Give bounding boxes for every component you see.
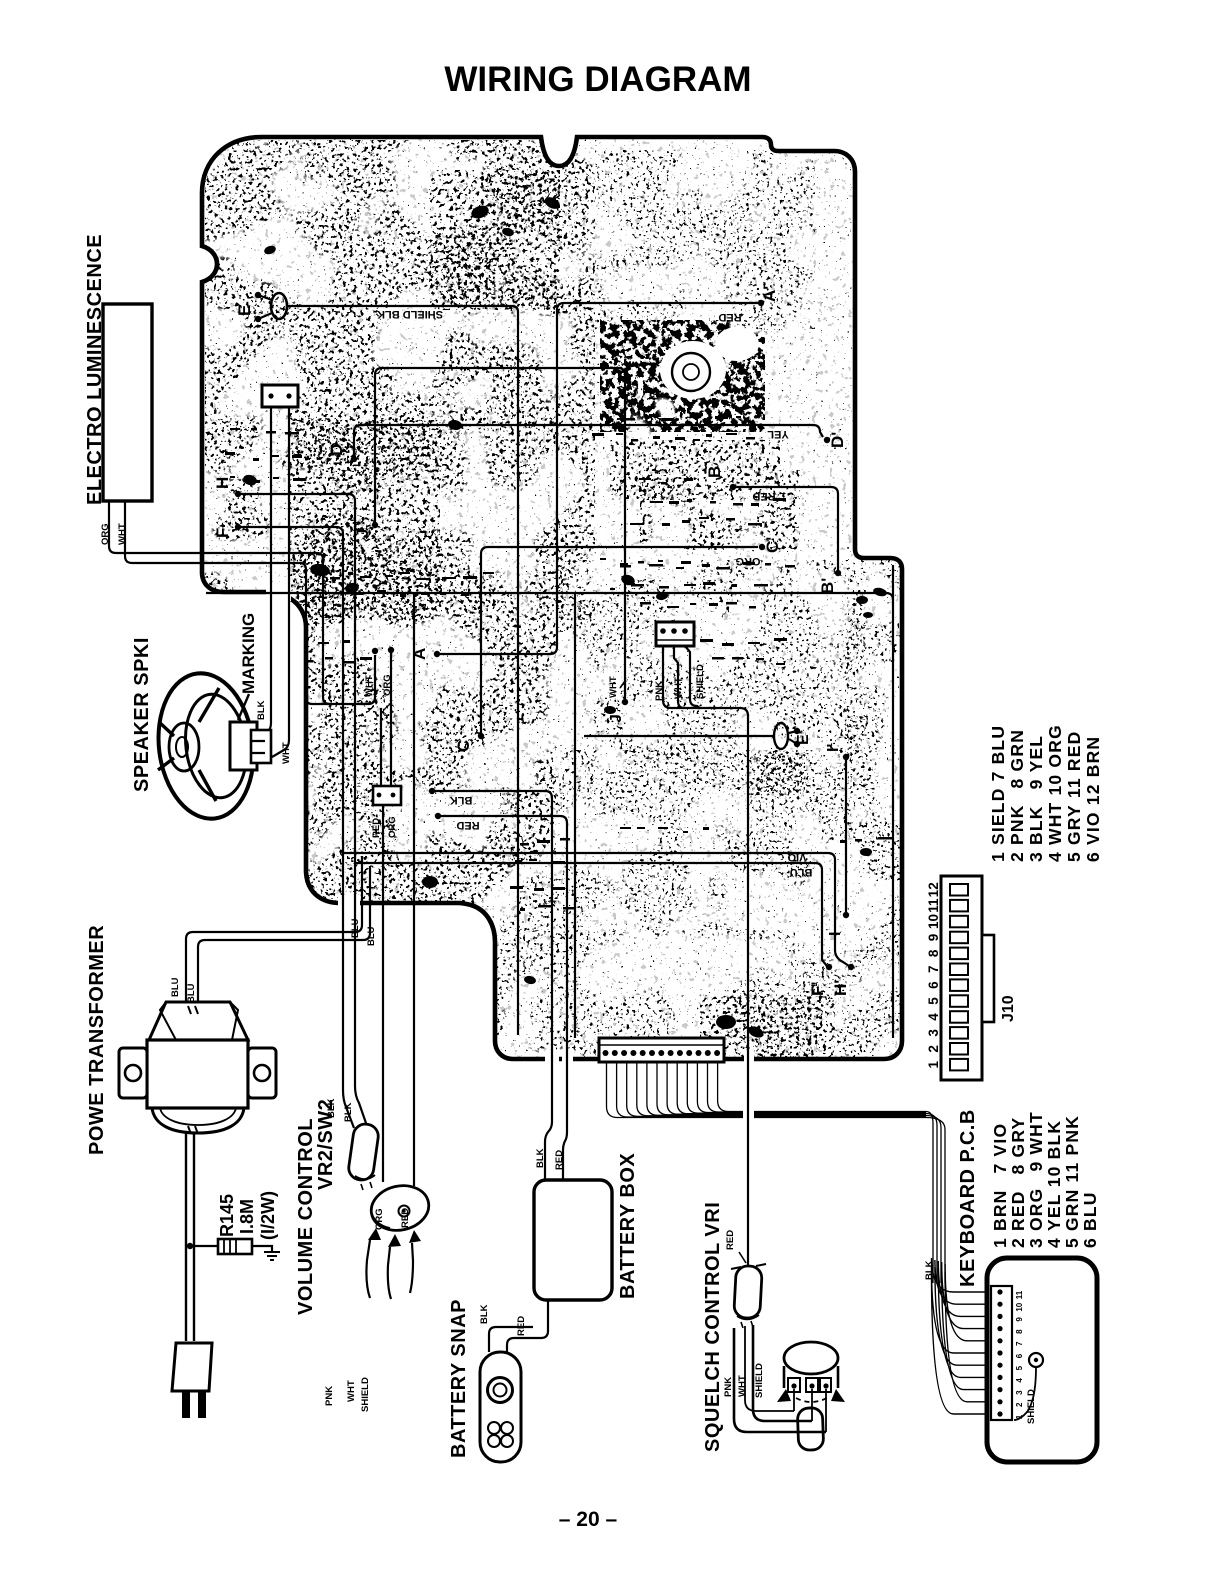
svg-text:J10: J10 xyxy=(1000,995,1017,1022)
svg-text:RED: RED xyxy=(725,1230,736,1250)
svg-text:SQUELCH CONTROL VRI: SQUELCH CONTROL VRI xyxy=(702,1202,724,1452)
svg-text:D: D xyxy=(327,444,346,456)
svg-text:1 BRN 7 VIO: 1 BRN 7 VIO xyxy=(990,1123,1010,1248)
svg-text:BATTERY BOX: BATTERY BOX xyxy=(617,1153,639,1299)
svg-text:1 SIELD 7 BLU: 1 SIELD 7 BLU xyxy=(988,725,1008,862)
svg-text:BLK: BLK xyxy=(479,1304,490,1324)
svg-text:8: 8 xyxy=(926,949,941,957)
svg-text:ELECTRO LUMINESCENCE: ELECTRO LUMINESCENCE xyxy=(84,234,106,505)
svg-text:F': F' xyxy=(808,982,827,996)
svg-text:2 PNK 8 GRN: 2 PNK 8 GRN xyxy=(1007,729,1027,862)
svg-text:PNK: PNK xyxy=(324,1386,335,1406)
svg-text:WHT: WHT xyxy=(673,677,684,699)
svg-text:3: 3 xyxy=(926,1029,941,1037)
svg-text:ORG: ORG xyxy=(100,523,111,545)
svg-text:10: 10 xyxy=(1015,1302,1024,1311)
svg-text:1: 1 xyxy=(926,1060,941,1068)
svg-text:BLK: BLK xyxy=(343,1102,354,1122)
svg-text:WHT: WHT xyxy=(346,1380,357,1402)
svg-text:VOLUME CONTROL: VOLUME CONTROL xyxy=(295,1118,317,1315)
svg-text:SHIELD: SHIELD xyxy=(1026,1389,1037,1424)
svg-text:BLK: BLK xyxy=(535,1148,546,1168)
svg-text:3: 3 xyxy=(1015,1390,1024,1395)
svg-text:– 20 –: – 20 – xyxy=(559,1508,618,1531)
svg-text:RED: RED xyxy=(718,311,741,323)
svg-text:RED: RED xyxy=(400,1208,411,1228)
svg-text:WHT: WHT xyxy=(608,676,619,698)
svg-text:SPEAKER SPKI: SPEAKER SPKI xyxy=(131,637,153,792)
svg-text:BATTERY SNAP: BATTERY SNAP xyxy=(448,1299,470,1458)
svg-text:B: B xyxy=(705,466,724,478)
svg-text:5 GRN 11 PNK: 5 GRN 11 PNK xyxy=(1062,1115,1082,1248)
svg-text:C': C' xyxy=(763,537,782,553)
svg-text:MARKING: MARKING xyxy=(239,613,258,694)
svg-text:RED: RED xyxy=(516,1316,527,1336)
svg-text:WHT: WHT xyxy=(364,675,375,697)
svg-text:2: 2 xyxy=(1015,1402,1024,1407)
svg-text:R145: R145 xyxy=(217,1194,237,1237)
svg-text:6 VIO 12 BRN: 6 VIO 12 BRN xyxy=(1083,736,1103,862)
svg-text:7: 7 xyxy=(926,965,941,973)
svg-text:11: 11 xyxy=(1015,1290,1024,1299)
svg-text:WHT: WHT xyxy=(281,742,292,764)
svg-text:WIRING DIAGRAM: WIRING DIAGRAM xyxy=(444,60,751,99)
svg-text:6 BLU: 6 BLU xyxy=(1080,1191,1100,1248)
svg-text:A': A' xyxy=(760,286,779,302)
svg-text:SHIELD: SHIELD xyxy=(360,1377,371,1412)
svg-text:J': J' xyxy=(608,710,625,723)
svg-text:6: 6 xyxy=(1015,1353,1024,1358)
svg-text:KEYBOARD P.C.B: KEYBOARD P.C.B xyxy=(957,1109,979,1287)
svg-text:9: 9 xyxy=(926,934,941,942)
svg-text:BLK: BLK xyxy=(450,794,473,806)
svg-text:3 BLK 9 YEL: 3 BLK 9 YEL xyxy=(1026,735,1046,862)
svg-text:3 ORG 9 WHT: 3 ORG 9 WHT xyxy=(1026,1111,1046,1248)
svg-text:4 YEL 10 BLK: 4 YEL 10 BLK xyxy=(1044,1120,1064,1248)
svg-text:BLK: BLK xyxy=(924,1260,935,1280)
svg-text:RED: RED xyxy=(456,819,479,831)
svg-text:9: 9 xyxy=(1015,1317,1024,1322)
svg-text:(I/2W): (I/2W) xyxy=(258,1191,278,1240)
svg-text:2: 2 xyxy=(926,1045,941,1053)
svg-text:SHIELD: SHIELD xyxy=(754,1363,765,1398)
svg-text:PNK: PNK xyxy=(654,681,665,701)
svg-text:PNK: PNK xyxy=(723,1377,734,1397)
svg-text:WHT: WHT xyxy=(117,523,128,545)
svg-text:4: 4 xyxy=(1015,1378,1024,1383)
svg-text:F: F xyxy=(213,528,232,538)
svg-text:YEL: YEL xyxy=(767,428,789,440)
svg-text:ORG: ORG xyxy=(374,1208,385,1230)
svg-text:POWE TRANSFORMER: POWE TRANSFORMER xyxy=(86,925,108,1155)
svg-text:I: I xyxy=(827,932,844,936)
svg-text:VIO: VIO xyxy=(787,851,806,863)
svg-text:BLU: BLU xyxy=(790,866,813,878)
svg-text:BLU: BLU xyxy=(350,918,361,938)
svg-text:5: 5 xyxy=(926,997,941,1005)
svg-text:BLU: BLU xyxy=(186,983,197,1003)
svg-text:SHIELD: SHIELD xyxy=(695,664,706,699)
svg-text:ORG: ORG xyxy=(735,555,760,567)
svg-text:H': H' xyxy=(831,980,850,996)
svg-text:4: 4 xyxy=(926,1013,941,1021)
svg-text:A: A xyxy=(410,648,429,660)
svg-text:RED: RED xyxy=(554,1150,565,1170)
svg-text:D': D' xyxy=(828,432,847,448)
svg-text:12: 12 xyxy=(926,882,941,897)
svg-text:8: 8 xyxy=(1015,1329,1024,1334)
svg-text:SHIELD BLK: SHIELD BLK xyxy=(377,308,443,320)
svg-text:5: 5 xyxy=(1015,1365,1024,1370)
svg-text:11: 11 xyxy=(926,898,941,913)
svg-text:BLU: BLU xyxy=(366,926,377,946)
svg-text:RED: RED xyxy=(752,490,775,502)
svg-text:ORG: ORG xyxy=(387,816,398,838)
svg-text:C: C xyxy=(454,740,473,752)
svg-text:ORG: ORG xyxy=(382,674,393,696)
svg-text:BLU: BLU xyxy=(170,977,181,997)
svg-text:B': B' xyxy=(818,578,837,594)
svg-text:4 WHT 10 ORG: 4 WHT 10 ORG xyxy=(1045,724,1065,862)
svg-text:BLK: BLK xyxy=(256,700,267,720)
svg-text:I': I' xyxy=(825,744,842,752)
svg-text:7: 7 xyxy=(1015,1341,1024,1346)
svg-text:2 RED 8 GRY: 2 RED 8 GRY xyxy=(1008,1117,1028,1248)
svg-text:WHT: WHT xyxy=(737,1375,748,1397)
svg-text:H: H xyxy=(213,477,232,489)
svg-text:E': E' xyxy=(795,731,812,745)
svg-text:E: E xyxy=(235,305,254,316)
svg-text:10: 10 xyxy=(926,914,941,929)
svg-text:5 GRY 11 RED: 5 GRY 11 RED xyxy=(1064,731,1084,862)
svg-text:RED: RED xyxy=(371,818,382,838)
svg-text:6: 6 xyxy=(926,981,941,989)
svg-text:I.8M: I.8M xyxy=(237,1199,257,1234)
svg-text:BLK: BLK xyxy=(326,1098,337,1118)
